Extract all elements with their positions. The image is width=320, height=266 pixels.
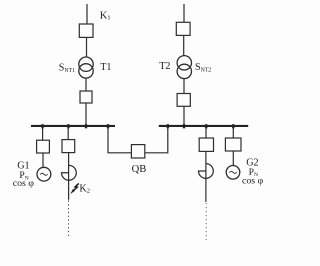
svg-text:T1: T1	[100, 62, 111, 73]
fault arrow at K2 (lightning bolt)	[73, 183, 78, 190]
svg-text:cos φ: cos φ	[13, 178, 35, 189]
wire: breaker to right busbar	[183, 106, 185, 125]
svg-text:QB: QB	[132, 164, 147, 175]
busbar W2 (right)	[159, 125, 248, 127]
tilde inside G2	[229, 171, 236, 173]
transformer T2 (two overlapping circles)	[177, 56, 191, 70]
node: reactor branch junction right	[205, 124, 207, 128]
node: QB riser junction right	[167, 124, 169, 128]
node: QB riser junction left	[107, 124, 109, 128]
reactor L1 (3/4 circle)	[62, 165, 77, 180]
wire: busbar to G2 breaker	[232, 127, 234, 138]
tie breaker QB box	[131, 145, 144, 158]
busbar W1 (left)	[31, 125, 115, 127]
svg-text:cos φ: cos φ	[242, 176, 264, 187]
breaker box QF1 (left feeder, upper)	[79, 24, 93, 37]
transformer T1 (two overlapping circles)	[79, 57, 93, 71]
wire: breaker to generator G1	[42, 153, 44, 167]
node: G1 branch junction	[41, 124, 43, 128]
node: reactor branch junction left	[67, 124, 69, 128]
breaker box QF7 (right reactor branch)	[199, 138, 213, 151]
wire: busbar to right reactor breaker	[205, 127, 207, 138]
breaker box QF2 (left feeder, lower)	[80, 91, 92, 103]
wire: T1 to lower breaker	[85, 78, 87, 91]
wire: dotted continuation below K2	[68, 201, 70, 238]
breaker box QF6 (left reactor branch)	[62, 140, 75, 153]
wire: busbar to left reactor breaker	[67, 127, 69, 140]
node: T1 to busbar junction	[85, 124, 87, 128]
breaker box QF3 (right feeder, upper)	[176, 22, 190, 35]
node: G2 branch junction	[232, 124, 234, 128]
wire: incoming feeder line right	[183, 4, 185, 22]
generator G2 circle	[226, 166, 240, 180]
wire: busbar down to QB (left side)	[108, 127, 131, 153]
breaker box QF8 (G2 branch)	[225, 138, 241, 151]
wire: incoming feeder line left	[86, 4, 88, 24]
wire: breaker to left busbar	[85, 103, 87, 126]
svg-text:T2: T2	[159, 61, 170, 72]
node: T2 to busbar junction	[183, 124, 185, 128]
wire: busbar to G1 breaker	[42, 127, 44, 140]
wire: T2 to lower breaker	[183, 79, 185, 94]
wire: QF1 to transformer T1	[86, 37, 88, 57]
wire: dotted continuation right feeder	[205, 203, 207, 240]
reactor L2 (3/4 circle)	[199, 164, 214, 179]
wire: QB to right busbar	[145, 127, 168, 153]
wire: through reactor L2 down	[205, 151, 207, 202]
breaker box QF4 (right feeder, lower)	[177, 94, 190, 107]
wire: QF3 to transformer T2	[183, 35, 185, 55]
tilde inside G1	[40, 173, 47, 175]
wire: breaker to generator G2	[232, 151, 234, 166]
generator G1 circle	[37, 167, 51, 181]
breaker box QF5 (G1 branch)	[37, 140, 50, 153]
wire: through reactor L1 down to fault point	[68, 153, 70, 200]
